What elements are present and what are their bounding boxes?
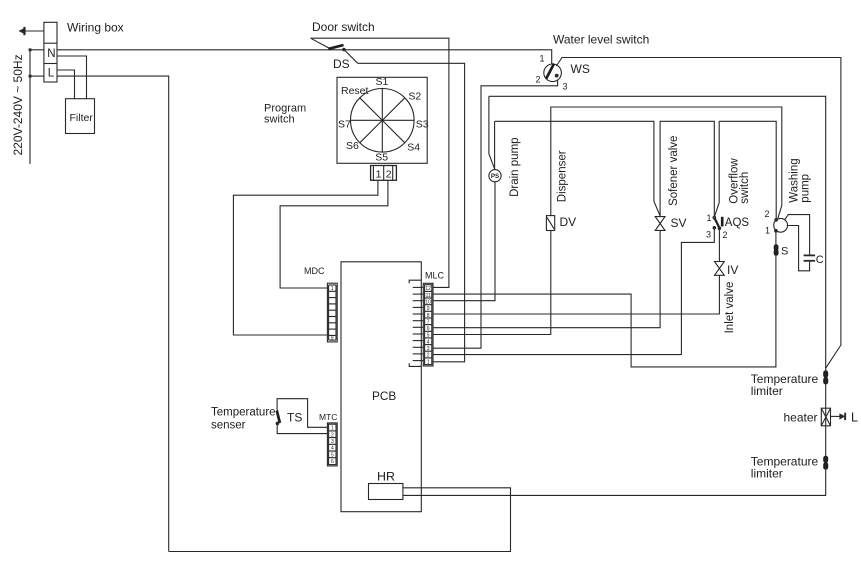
connector MTC <box>327 423 337 466</box>
svg-text:L: L <box>48 67 55 79</box>
svg-text:Sofener valve: Sofener valve <box>668 136 680 206</box>
svg-text:1: 1 <box>427 359 430 365</box>
wire WS terminal 3 to MLC pin 3 <box>433 80 558 348</box>
temperature limiter 1 blobs <box>823 373 828 382</box>
wire N to filter <box>57 56 87 99</box>
svg-text:Reset: Reset <box>341 85 369 97</box>
program switch spokes <box>351 89 415 153</box>
svg-text:senser: senser <box>211 420 246 432</box>
svg-text:11: 11 <box>426 293 431 299</box>
svg-text:Temperature: Temperature <box>211 406 276 418</box>
washing pump terminal dot 1 <box>774 229 778 233</box>
overflow switch AQS pivot <box>713 216 716 219</box>
svg-text:1: 1 <box>331 286 334 292</box>
connector MLC block <box>423 283 433 366</box>
wire PS top bus <box>433 182 495 301</box>
WS contact dot <box>555 74 559 78</box>
door switch second blade <box>344 50 358 64</box>
svg-text:1: 1 <box>765 226 770 236</box>
wire bus piece A <box>495 121 660 216</box>
svg-text:S: S <box>781 246 788 258</box>
svg-text:AQS: AQS <box>725 217 750 229</box>
svg-text:5: 5 <box>331 452 334 458</box>
svg-text:7: 7 <box>427 319 430 325</box>
svg-text:Door switch: Door switch <box>312 20 375 34</box>
svg-text:3: 3 <box>563 82 568 92</box>
svg-text:2: 2 <box>427 353 430 359</box>
svg-text:9: 9 <box>331 335 334 341</box>
wire washing pump to capacitor top <box>784 215 809 256</box>
svg-text:4: 4 <box>427 339 430 345</box>
svg-text:MDC: MDC <box>304 266 325 276</box>
svg-text:limiter: limiter <box>751 384 783 398</box>
wire N from supply to box <box>30 49 44 51</box>
capacitor C plates <box>804 255 816 260</box>
svg-text:1: 1 <box>707 213 712 223</box>
AQS contact dot 3 <box>713 226 717 230</box>
washing pump terminal dot 2 <box>774 218 778 222</box>
svg-text:3: 3 <box>331 439 334 445</box>
svg-text:Dispenser: Dispenser <box>557 150 569 202</box>
wire AQS terminal 2 to inlet valve <box>718 228 720 261</box>
wire WS wiper to right side <box>556 58 841 369</box>
node N junction dot <box>29 48 32 51</box>
svg-text:10: 10 <box>425 300 431 306</box>
svg-text:Washing: Washing <box>788 158 800 202</box>
MLC pin number labels 12..1 <box>425 286 431 365</box>
filter F1 <box>66 99 95 134</box>
drain pump PS circle <box>489 170 501 182</box>
PCB board outline <box>341 262 421 512</box>
svg-text:N: N <box>47 48 55 60</box>
AQS contact dot 2 <box>718 226 722 230</box>
svg-text:8: 8 <box>427 313 430 319</box>
svg-text:IV: IV <box>727 263 738 277</box>
svg-text:MLC: MLC <box>425 271 445 281</box>
program switch rotary circle <box>351 89 415 153</box>
MTC pin number labels 1..6 <box>331 426 334 466</box>
svg-text:switch: switch <box>264 114 295 126</box>
wire door switch top to MLC pin 12 <box>311 38 449 287</box>
svg-text:2: 2 <box>765 209 770 219</box>
svg-text:Program: Program <box>264 102 306 114</box>
door switch pivot dot <box>342 48 346 52</box>
svg-text:S6: S6 <box>346 140 359 152</box>
program switch pin block <box>371 166 397 181</box>
wire drain pump top to bus corner <box>494 121 496 169</box>
svg-text:1: 1 <box>331 426 334 432</box>
temperature limiter 2 blobs <box>823 458 828 467</box>
wire limiter string bottom to HR lower <box>403 368 826 495</box>
water level switch WS circle <box>544 64 562 82</box>
wire bus piece C <box>714 121 719 217</box>
svg-text:6: 6 <box>331 459 334 465</box>
svg-text:DV: DV <box>560 215 577 229</box>
svg-text:SV: SV <box>671 216 687 230</box>
heating relay HR box <box>369 484 403 500</box>
wire program pin1 to MDC pin 9 <box>233 180 378 335</box>
wire program pin2 to MDC pin 1 <box>280 180 388 288</box>
WS wiper blade <box>546 64 554 79</box>
svg-text:MTC: MTC <box>319 412 337 422</box>
connector MDC <box>327 283 337 342</box>
svg-text:Wiring box: Wiring box <box>67 21 124 35</box>
svg-text:3: 3 <box>706 230 711 240</box>
svg-text:Inlet valve: Inlet valve <box>724 282 736 334</box>
connector MLC hooks and teeth <box>409 280 421 366</box>
svg-text:S4: S4 <box>407 142 420 154</box>
inlet valve IV bowtie <box>715 262 725 276</box>
wire washing pump right to capacitor bottom <box>788 226 810 271</box>
wire supply vertical <box>29 50 31 164</box>
thermal protector S blobs <box>774 247 779 254</box>
wire IV bottom to MLC pin 8 <box>433 275 719 314</box>
AQS blade <box>714 218 719 228</box>
svg-text:switch: switch <box>739 172 751 204</box>
wire door switch lower to MLC pin 1 <box>358 63 465 362</box>
wire HR upper to bottom rail <box>169 488 511 552</box>
svg-text:heater: heater <box>784 411 818 425</box>
temperature sensor TS box <box>276 399 328 434</box>
svg-text:PS: PS <box>491 173 499 180</box>
wiring box <box>44 22 57 82</box>
wire bus piece B <box>660 121 714 217</box>
wire dispenser top <box>551 107 782 218</box>
svg-text:Water level switch: Water level switch <box>553 32 649 46</box>
svg-text:2: 2 <box>536 75 541 85</box>
earth arrow at wiring box <box>19 27 44 35</box>
svg-text:S7: S7 <box>338 118 351 130</box>
svg-text:PCB: PCB <box>372 389 396 403</box>
wire AQS terminal 3 to MLC pin 2 <box>433 230 714 355</box>
wire L to filter <box>57 70 75 99</box>
wire N long run to water level switch <box>57 50 552 64</box>
svg-text:12: 12 <box>425 286 431 292</box>
softener valve SV bowtie <box>655 217 665 231</box>
svg-text:1: 1 <box>540 54 545 64</box>
wire L stub from supply to box <box>30 75 44 77</box>
svg-text:6: 6 <box>427 326 430 332</box>
svg-text:S5: S5 <box>375 151 388 163</box>
svg-text:DS: DS <box>333 57 350 71</box>
svg-text:limiter: limiter <box>751 467 783 481</box>
wire to drain pump top from y96 bus <box>489 96 495 169</box>
svg-text:220V-240V ~ 50Hz: 220V-240V ~ 50Hz <box>11 54 25 155</box>
wire L long run down left side <box>57 76 169 551</box>
svg-text:4: 4 <box>331 446 334 452</box>
label AQS with bold bar <box>721 217 750 229</box>
svg-text:S3: S3 <box>416 118 429 130</box>
svg-text:2: 2 <box>386 168 392 180</box>
svg-text:9: 9 <box>427 306 430 312</box>
wire DV bottom to MLC pin 5 <box>433 231 551 335</box>
svg-text:5: 5 <box>427 333 430 339</box>
svg-text:Drain pump: Drain pump <box>509 137 521 196</box>
heater resistor HL <box>821 408 830 426</box>
wire washing pump bottom to MLC pin 11 <box>433 231 776 367</box>
door switch DS blade <box>311 38 344 49</box>
svg-text:HR: HR <box>377 469 395 483</box>
dispenser valve DV <box>546 216 554 231</box>
svg-text:S1: S1 <box>376 76 389 88</box>
washing pump motor circle <box>774 218 788 232</box>
program switch box <box>337 77 427 163</box>
svg-text:S2: S2 <box>408 90 421 102</box>
svg-text:pump: pump <box>800 174 812 203</box>
svg-text:L: L <box>851 410 858 424</box>
wire upper bus y96 to right vertical <box>489 96 826 368</box>
svg-text:C: C <box>816 254 824 266</box>
node L junction dot <box>29 75 32 78</box>
svg-text:2: 2 <box>331 432 334 438</box>
wire heater tap to L with arrow <box>831 413 847 420</box>
svg-text:2: 2 <box>723 230 728 240</box>
svg-text:TS: TS <box>287 411 302 425</box>
svg-text:3: 3 <box>427 346 430 352</box>
svg-text:Filter: Filter <box>70 112 94 124</box>
svg-text:1: 1 <box>376 168 382 180</box>
svg-text:WS: WS <box>571 62 590 76</box>
wire SV bottom to MLC pin 6 <box>433 230 660 327</box>
